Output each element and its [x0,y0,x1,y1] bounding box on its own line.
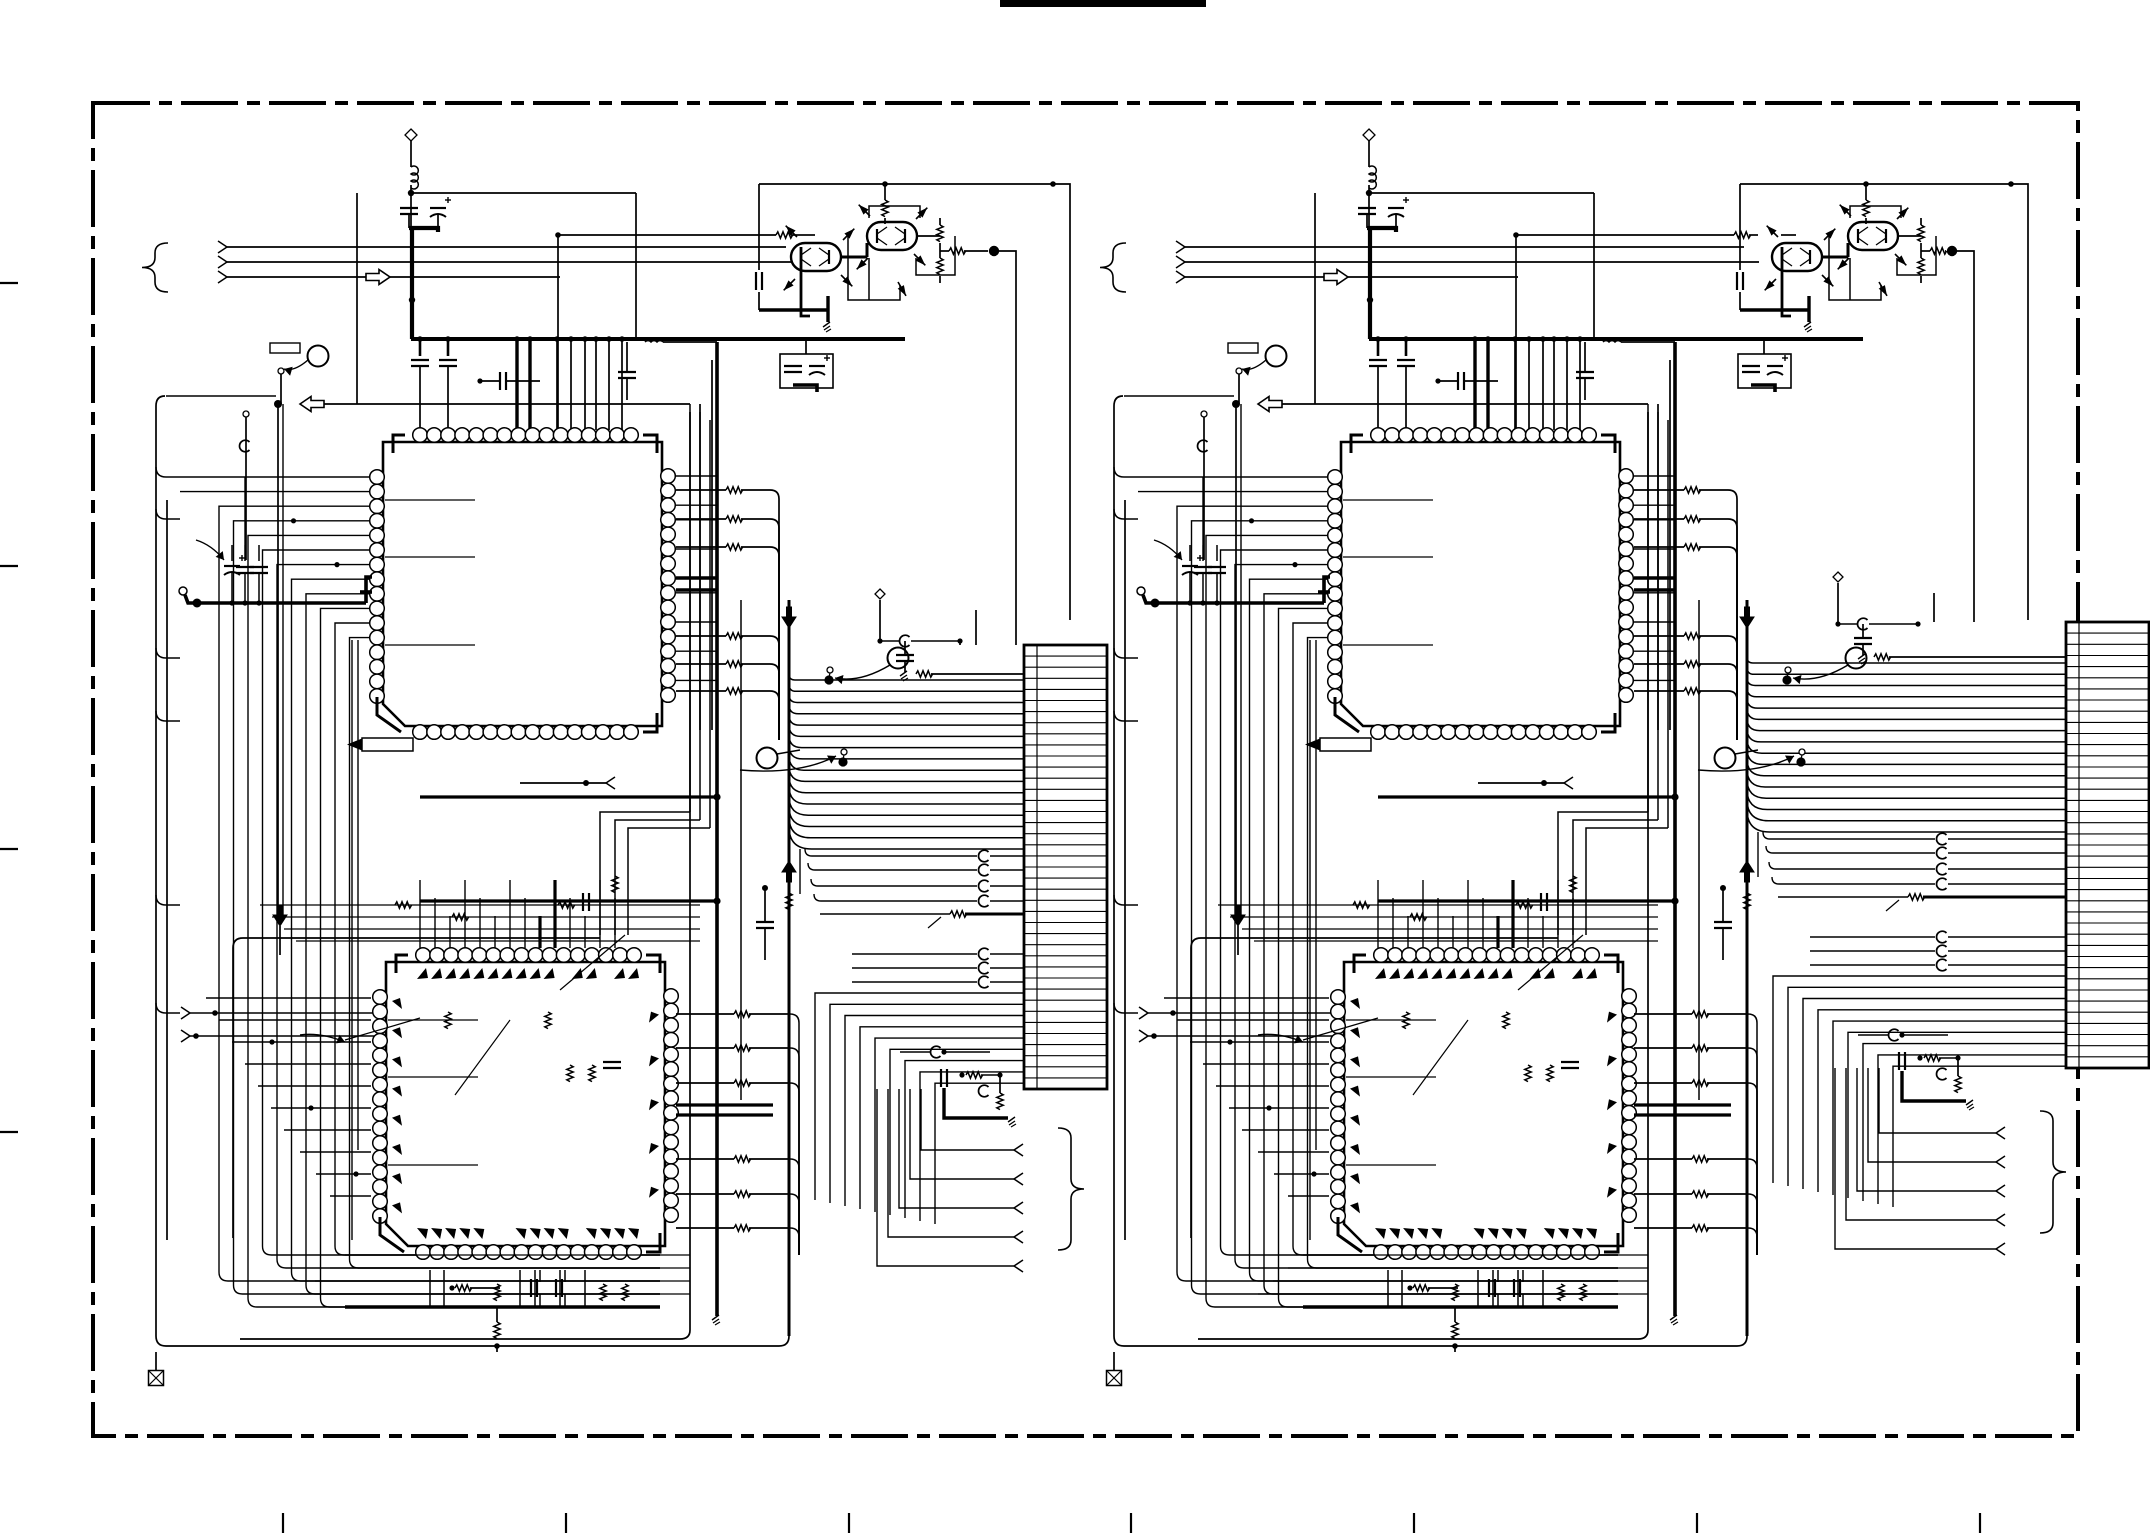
wire [884,184,886,200]
wire [494,916,496,948]
wire [1542,1270,1544,1307]
wire [900,1051,930,1053]
pin arrow [1879,285,1887,296]
wire [770,547,779,556]
wire [244,545,246,561]
junction [1541,780,1547,786]
wire [1920,218,1922,225]
wire [990,953,1024,955]
ground [1858,654,1865,659]
terminal T19 [1996,1214,2005,1220]
test point TP1 [824,675,833,684]
wire vcc loop top [1369,192,1594,194]
wire [1164,997,1329,999]
capacitor C18 [603,1061,621,1063]
resistor R51 [1955,1076,1961,1093]
terminal T6 [1014,1173,1023,1179]
transistor lead [1879,282,1887,296]
wire [1756,1057,1758,1255]
wire [808,863,977,870]
IC U3 nc stub [1343,556,1433,558]
wire [1113,1352,1115,1371]
wire [1948,868,2066,870]
signal flow arrow AR3 [1324,270,1348,285]
capacitor C33 [1194,566,1212,568]
wire [1216,545,1218,561]
wire [419,366,421,430]
resistor R28 [445,1012,451,1029]
wire [1515,235,1517,430]
net junction [989,246,999,256]
resistor R25 [622,1284,628,1301]
wire [1573,820,1658,935]
wire [1772,877,1935,884]
wire [790,1083,799,1092]
power terminal PWR1 [405,129,417,141]
wire [814,894,977,901]
wire [1634,1013,1692,1015]
junction [568,336,574,342]
wire [1395,214,1397,228]
capacitor C15 [250,566,268,568]
wire [778,645,780,740]
wire rail tap [156,509,180,519]
wire [990,981,1024,983]
pin arrow [859,205,869,215]
IC U3 corner lead [1335,697,1359,732]
wire [741,518,770,520]
wire [408,214,410,228]
junction [1050,181,1056,187]
wire [741,690,770,692]
wire [999,251,1016,430]
wire to connector [789,725,1024,737]
wire [1190,1041,1329,1043]
wire to connector [1747,810,2066,833]
power terminal PWR3 [1363,129,1375,141]
transistor lead [1838,258,1849,269]
wire thick [1740,308,1809,311]
bead FB9 [931,1046,941,1058]
junction [1513,232,1519,238]
wire to connector [815,993,1024,1200]
filter box [780,354,833,388]
wire [284,928,700,930]
wire to connector [1747,708,2066,720]
annotation circle A5 [1715,748,1736,769]
filter box [1738,354,1791,388]
wire [1191,938,1558,1238]
bead FB7 [978,976,988,988]
junction [334,562,339,567]
wire to connector [1803,999,2066,1190]
wire [1948,852,2066,854]
wire [557,235,559,430]
IC U2 left pin arrows [392,998,402,1009]
bead FB17 [1936,945,1946,957]
annotation line [928,917,941,928]
junction [1720,885,1726,891]
wire [553,880,556,948]
wire [1763,832,1935,839]
wire [1230,916,1658,918]
wire tap [676,650,717,652]
wire [1748,1228,1757,1237]
capacitor C29 [1736,272,1738,290]
junction [193,1033,199,1039]
wire [1736,528,1738,740]
junction [1955,1055,1960,1060]
junction [882,181,888,187]
wire to connector [789,715,1024,725]
resistor R3 [726,516,743,522]
wire [790,1048,799,1057]
wire tap [263,550,661,1255]
wire [1557,880,1559,948]
junction [619,336,625,342]
transistor lead [784,279,795,290]
wire [663,341,717,343]
wire [1897,236,1936,275]
wire [470,1287,500,1289]
wire [296,940,700,942]
wire to connector [1747,738,2066,753]
wire tap [1177,506,1618,1281]
wire bus [1198,412,1648,1339]
wire [564,1294,566,1307]
wire [741,663,770,665]
pin arrow [1765,280,1775,290]
wire to connector [1747,749,2066,765]
IC U4 corner lead [1338,1217,1362,1252]
wire [1921,250,1930,252]
wire tap [1634,592,1675,594]
wire [676,1227,734,1229]
annotation arrow [835,665,890,679]
wire [778,528,780,740]
wire [1736,645,1738,740]
resistor R14 [916,671,933,677]
junction [212,1010,218,1016]
annotation arrow [196,540,224,560]
junction [1366,190,1372,196]
wire [496,1308,498,1322]
wire to connector [789,755,1024,770]
wire thick [1634,588,1675,591]
wire [1749,234,1758,236]
wire [1879,1068,1996,1133]
resistor R44 [1863,200,1869,217]
wire [315,1280,690,1282]
wire [1203,417,1205,560]
wire [1053,184,1070,620]
capacitor C22 [1369,359,1387,361]
wire [990,855,1024,857]
pin arrow [1767,226,1777,236]
wire [852,953,977,955]
wire [1528,339,1530,430]
junction [193,599,202,608]
input terminal T3 [218,271,227,277]
wire to connector [1747,728,2066,742]
wire [1634,1193,1692,1195]
wire to connector [1833,1021,2066,1195]
wire tap [180,476,369,478]
wire [584,339,586,430]
transistor lead [857,258,868,269]
wire to connector [920,1072,1024,1221]
wire [1634,518,1684,520]
wire [245,1063,371,1065]
wire tap [306,594,660,1294]
wire [1917,622,1919,624]
wire [1202,573,1204,601]
bead FB1 [978,850,988,862]
wire [990,967,1024,969]
IC U1 left pins [370,470,385,485]
annotation arrow [300,1034,345,1042]
wire tap [1634,650,1675,652]
junction [713,793,720,800]
resistor R33 [452,914,469,920]
bead FB4 [978,895,988,907]
wire tap [1250,579,1619,1281]
frame reference mark [149,1371,164,1386]
wire [1634,1047,1692,1049]
IC U4 nc stub [1346,1076,1436,1078]
electrolytic capacitor C21 [1388,207,1404,209]
junction [1671,897,1678,904]
resistor R50 [1924,1055,1941,1061]
wire [904,661,906,672]
junction [1835,621,1840,626]
ground [823,322,830,327]
IC U4 nc stub [1346,1019,1436,1021]
wire [206,997,371,999]
annotation line [1518,935,1583,990]
wire thick [841,256,867,259]
wire [801,247,810,316]
wire thick vcc [409,228,438,232]
power terminal PWR4 [1833,572,1843,582]
wire [1242,1129,1329,1131]
IC U2 [386,962,665,1246]
wire to connector [789,745,1024,759]
resistor R10 [937,225,943,242]
wire [635,193,637,339]
wire thick bus [715,342,719,1316]
wire [1722,888,1724,922]
wire tap [1192,521,1619,1294]
junction [269,1039,274,1044]
annotation arrow [1242,360,1266,370]
transistor lead [859,205,870,216]
ground [1804,322,1811,327]
wire rail tap [156,711,180,721]
fold mark [1413,1513,1415,1533]
terminal T16 [1996,1127,2005,1133]
junction [1526,336,1532,342]
wire [1920,243,1922,258]
resistor R70 [1744,893,1750,910]
annotation arrow [1793,665,1848,679]
resistor R12 [949,248,966,254]
junction [1512,336,1518,342]
wire [676,1193,734,1195]
wire [1203,1063,1329,1065]
wire [1467,880,1469,948]
wire [437,214,439,228]
wire [1736,673,1738,740]
fold mark [565,1513,567,1533]
wire [759,183,1053,185]
IC U4 nc stub [1346,1164,1436,1166]
wire [434,898,436,948]
wire [990,900,1024,902]
test point TP2 [838,757,847,766]
wire rail tap [156,467,180,477]
wire [790,1159,799,1168]
annotation line [560,935,625,990]
wire [1707,1227,1748,1229]
IC U3 nc stub [1343,644,1433,646]
wire [272,916,700,918]
wire [279,926,281,955]
fold mark [848,1513,850,1533]
wire [1516,234,1734,236]
bead FB16 [1936,931,1946,943]
wire [799,849,801,894]
wire tap [350,638,661,1268]
wire [764,888,766,922]
bead FB18 [1936,959,1946,971]
capacitor C19 [582,893,584,911]
terminal T18 [1996,1185,2005,1191]
input wire [1185,246,1744,248]
wire [884,218,886,224]
resistor R39 [1684,544,1701,550]
signal flow arrow AR2 [300,397,324,412]
wire [990,869,1024,871]
fold mark [0,565,18,567]
wire [778,673,780,740]
wire [676,663,726,665]
input wire [227,246,786,248]
wire rail tap [156,1003,180,1013]
wire [300,1151,371,1153]
wire [1273,1280,1648,1282]
junction [445,336,451,342]
wire [1242,928,1658,930]
wire [741,489,770,491]
input wire [1185,276,1518,278]
wire tap [1634,519,1675,521]
wire [676,546,726,548]
junction [353,1171,358,1176]
junction [762,885,768,891]
resistor R2 [726,487,743,493]
output brace [2040,1111,2066,1233]
capacitor C24 [1457,372,1459,390]
wire [219,1019,371,1021]
wire [1314,193,1316,404]
capacitor C34 [1208,566,1226,568]
wire [764,928,766,960]
wire [749,1047,790,1049]
junction [1151,599,1160,608]
wire tap [676,548,717,550]
resistor R59 [1558,1284,1564,1301]
resistor R56 [1692,1191,1709,1197]
wire to connector [1788,987,2066,1186]
IC U2 nc stub [388,1076,478,1078]
pin arrow [915,255,925,265]
wire [1428,1287,1458,1289]
wire [741,635,770,637]
electrolytic capacitor C8 [809,365,825,367]
wire [410,185,412,232]
annotation line [1886,900,1899,911]
wire to connector [1747,688,2066,697]
bead FB6 [978,962,988,974]
junction [378,606,383,611]
input wire [1148,1035,1578,1037]
wire [990,885,1024,887]
junction [554,336,560,342]
resistor R38 [1684,516,1701,522]
annotation line [345,1018,420,1040]
pin arrow [857,259,867,269]
wire [749,1013,790,1015]
wire tap [1138,491,1327,493]
transistor pair Q2 [867,222,917,250]
resistor R48 [1908,894,1925,900]
fold mark [1979,1513,1981,1533]
wire [676,1082,734,1084]
power terminal PWR2 [875,589,885,599]
wire to connector [789,694,1024,702]
wire [811,879,977,886]
resistor R13 [950,911,967,917]
wire [447,339,450,356]
wire [479,898,481,948]
test pad [1137,587,1145,595]
wire [879,600,881,641]
wire [1377,339,1380,356]
wire [1634,489,1684,491]
wire [758,292,760,310]
resistor R20 [734,1156,751,1162]
bead FB20 [1889,1029,1899,1041]
wire [868,258,870,300]
wire [1634,663,1684,665]
wire [276,403,278,405]
wire [1511,880,1514,948]
wire [324,403,690,405]
wire [1748,1159,1757,1168]
wire tap [1634,475,1675,477]
wire [1939,1057,1958,1059]
wire thick elbow [366,577,372,603]
resistor R42 [1684,688,1701,694]
wire [791,234,800,236]
resistor R9 [882,200,888,217]
fold mark [1696,1513,1698,1533]
inductor L2 [645,341,663,342]
wire [1377,366,1379,430]
wire [904,641,906,655]
bus arrow BA6 [1231,905,1245,926]
